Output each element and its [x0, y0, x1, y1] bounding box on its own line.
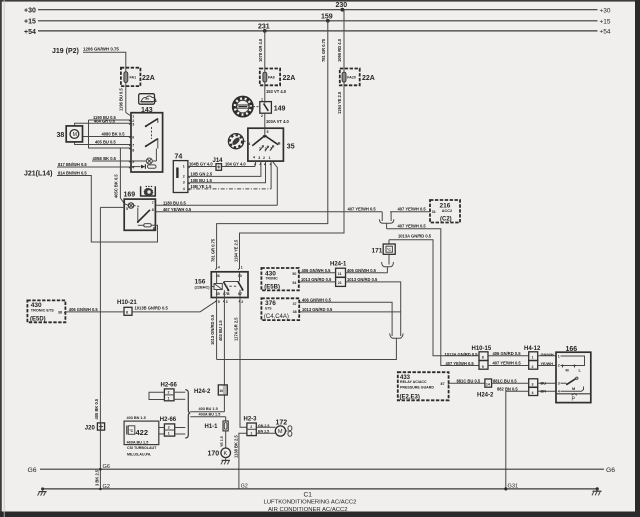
svg-text:1: 1	[250, 431, 252, 435]
svg-text:FA20: FA20	[347, 75, 356, 79]
svg-text:1: 1	[259, 146, 261, 150]
svg-text:406 GN/WH 0.5: 406 GN/WH 0.5	[347, 268, 377, 273]
svg-text:170: 170	[208, 450, 220, 457]
svg-text:422: 422	[136, 428, 149, 437]
svg-text:4: 4	[558, 390, 560, 394]
svg-text:231: 231	[258, 23, 270, 30]
svg-text:1090 RD 4.0: 1090 RD 4.0	[337, 38, 342, 62]
svg-text:406 GN/WH 0.5: 406 GN/WH 0.5	[69, 307, 99, 312]
svg-text:14: 14	[486, 382, 490, 386]
svg-text:407 YE/WH 0.5: 407 YE/WH 0.5	[398, 223, 427, 228]
svg-text:22A: 22A	[283, 75, 296, 82]
svg-text:2: 2	[183, 174, 185, 178]
svg-text:22A: 22A	[142, 75, 155, 82]
svg-text:+30: +30	[24, 8, 36, 15]
svg-text:882 BN 0.5: 882 BN 0.5	[497, 386, 518, 391]
svg-text:2: 2	[241, 300, 243, 304]
svg-text:2: 2	[261, 114, 263, 118]
svg-text:+15: +15	[24, 19, 36, 26]
svg-text:1013A GN/RD 0.5: 1013A GN/RD 0.5	[445, 352, 479, 357]
svg-text:5: 5	[126, 207, 128, 211]
svg-text:1: 1	[269, 156, 271, 160]
svg-text:TRONIC ETS: TRONIC ETS	[31, 309, 54, 313]
svg-text:1: 1	[168, 396, 170, 400]
svg-text:B: B	[278, 141, 281, 145]
svg-text:(E5B): (E5B)	[264, 284, 280, 290]
svg-text:4: 4	[248, 142, 250, 146]
svg-text:3 BK 2.5: 3 BK 2.5	[94, 469, 99, 486]
svg-text:2: 2	[250, 425, 252, 429]
svg-text:8: 8	[482, 356, 484, 360]
svg-text:YE/WH: YE/WH	[541, 362, 554, 366]
svg-text:35: 35	[287, 143, 295, 150]
svg-text:2: 2	[263, 156, 265, 160]
svg-text:°C: °C	[387, 248, 391, 252]
svg-text:460A BU 1.5: 460A BU 1.5	[127, 441, 149, 445]
svg-text:M: M	[566, 368, 569, 372]
svg-text:BN 2.5: BN 2.5	[258, 430, 269, 434]
svg-text:21: 21	[338, 281, 342, 285]
svg-text:54: 54	[292, 281, 296, 285]
svg-text:404 GR 0.5: 404 GR 0.5	[94, 119, 116, 124]
svg-text:FA1: FA1	[130, 76, 137, 80]
svg-text:H2-3: H2-3	[244, 416, 258, 422]
svg-text:405 BK 0.5: 405 BK 0.5	[94, 398, 99, 419]
svg-text:3: 3	[258, 156, 260, 160]
svg-text:PRESSURE GUARD: PRESSURE GUARD	[400, 386, 434, 390]
svg-text:3: 3	[226, 300, 228, 304]
svg-text:38: 38	[293, 310, 297, 314]
svg-text:10B BU 1.5: 10B BU 1.5	[191, 178, 213, 183]
svg-text:171: 171	[372, 248, 383, 255]
svg-text:1013B GN/RD 0.5: 1013B GN/RD 0.5	[135, 306, 169, 311]
svg-text:407 YE/WH 0.5: 407 YE/WH 0.5	[493, 361, 522, 366]
svg-text:149: 149	[274, 105, 286, 112]
svg-text:LUFTKONDITIONERING AC/ACC2: LUFTKONDITIONERING AC/ACC2	[264, 500, 357, 506]
svg-text:AIR CONDITIONER AC/ACC2: AIR CONDITIONER AC/ACC2	[268, 507, 348, 513]
svg-text:G2: G2	[103, 484, 110, 490]
svg-text:CSI TURBOLAUT: CSI TURBOLAUT	[127, 446, 157, 450]
svg-text:403 BN 1.5: 403 BN 1.5	[127, 416, 146, 420]
svg-text:BU: BU	[541, 382, 547, 386]
svg-text:1: 1	[558, 355, 560, 359]
svg-text:31: 31	[432, 210, 436, 214]
svg-text:3: 3	[532, 383, 534, 387]
svg-text:H10-15: H10-15	[472, 346, 492, 352]
svg-text:781 GR 0.75: 781 GR 0.75	[321, 38, 326, 62]
svg-text:159: 159	[321, 13, 333, 20]
svg-text:H2-66: H2-66	[161, 383, 178, 389]
svg-text:104B GY 4.0: 104B GY 4.0	[189, 162, 213, 167]
svg-text:37: 37	[293, 302, 297, 306]
svg-text:°C: °C	[129, 429, 133, 433]
svg-text:3: 3	[270, 146, 272, 150]
svg-text:(E2,E3): (E2,E3)	[400, 395, 420, 401]
svg-text:407 YE/WH 0.5: 407 YE/WH 0.5	[446, 361, 475, 366]
svg-text:406 GN/WH 0.5: 406 GN/WH 0.5	[302, 268, 332, 273]
svg-text:4: 4	[132, 165, 134, 169]
svg-text:406 GN/RD 0.5: 406 GN/RD 0.5	[493, 351, 522, 356]
svg-text:1: 1	[261, 98, 263, 102]
svg-text:1: 1	[532, 356, 534, 360]
svg-text:74: 74	[175, 154, 183, 161]
svg-text:8: 8	[152, 208, 154, 212]
svg-text:405 BU 0.5: 405 BU 0.5	[95, 140, 116, 145]
svg-text:403 BU 1.5: 403 BU 1.5	[218, 320, 223, 341]
svg-text:87: 87	[441, 382, 445, 386]
svg-text:230: 230	[336, 2, 348, 9]
svg-text:1196 BU 0.5: 1196 BU 0.5	[119, 88, 124, 111]
svg-text:1013A GN/RD 0.5: 1013A GN/RD 0.5	[398, 233, 432, 238]
svg-text:881C BU 0.5: 881C BU 0.5	[493, 378, 517, 383]
svg-text:1: 1	[183, 165, 185, 169]
svg-text:J19 (P2): J19 (P2)	[52, 48, 79, 55]
svg-text:50: 50	[292, 272, 296, 276]
svg-text:2: 2	[265, 147, 267, 151]
svg-text:+15: +15	[600, 19, 611, 26]
svg-text:M: M	[572, 387, 575, 391]
svg-text:117A GR 2.5: 117A GR 2.5	[234, 317, 239, 341]
svg-text:2: 2	[532, 365, 534, 369]
svg-text:G6: G6	[28, 467, 37, 474]
svg-text:H4-12: H4-12	[524, 346, 541, 352]
svg-text:8: 8	[132, 149, 134, 153]
svg-text:2: 2	[558, 364, 560, 368]
svg-text:RELAY AC/ACC: RELAY AC/ACC	[400, 380, 427, 384]
svg-text:H24-1: H24-1	[330, 261, 347, 267]
svg-text:1013 GN/RD 0.5: 1013 GN/RD 0.5	[347, 277, 378, 282]
svg-text:G31: G31	[508, 484, 519, 490]
svg-text:11: 11	[338, 272, 342, 276]
svg-text:(C4,C4A): (C4,C4A)	[264, 314, 289, 320]
svg-text:YE 1.5: YE 1.5	[220, 436, 224, 447]
svg-text:38: 38	[57, 132, 65, 139]
svg-text:10: 10	[219, 389, 223, 393]
svg-text:2: 2	[168, 426, 170, 430]
svg-text:1180 BU 0.5: 1180 BU 0.5	[163, 200, 186, 205]
svg-text:7: 7	[152, 201, 154, 205]
svg-text:1: 1	[241, 265, 243, 269]
svg-text:BN: BN	[541, 390, 547, 394]
svg-text:C1: C1	[304, 492, 313, 499]
svg-text:8: 8	[126, 311, 128, 315]
svg-text:J14: J14	[213, 158, 224, 164]
svg-text:4: 4	[532, 391, 534, 395]
svg-text:G6: G6	[606, 467, 615, 474]
svg-text:403A BU 1.5: 403A BU 1.5	[199, 413, 221, 417]
svg-text:1013 GN/RD 0.5: 1013 GN/RD 0.5	[302, 307, 333, 312]
svg-text:H24-2: H24-2	[194, 389, 211, 395]
svg-text:1078 GR 4.0: 1078 GR 4.0	[258, 38, 263, 62]
svg-text:G2: G2	[241, 483, 248, 489]
svg-text:2: 2	[168, 391, 170, 395]
svg-text:ETS: ETS	[265, 306, 271, 310]
svg-text:3: 3	[183, 181, 185, 185]
svg-text:1: 1	[132, 114, 134, 118]
svg-text:+54: +54	[24, 29, 36, 36]
svg-text:5: 5	[267, 130, 269, 134]
svg-text:10B GN 2.5: 10B GN 2.5	[191, 172, 213, 177]
svg-text:J21(L14): J21(L14)	[24, 170, 52, 177]
svg-text:M: M	[73, 132, 77, 138]
svg-text:+54: +54	[600, 29, 611, 36]
svg-text:1194 YE 2.5: 1194 YE 2.5	[234, 239, 239, 262]
svg-text:4: 4	[253, 156, 255, 160]
svg-text:+30: +30	[600, 7, 611, 14]
svg-text:H1-1: H1-1	[205, 424, 219, 430]
svg-text:1138 BK 2.5: 1138 BK 2.5	[234, 435, 239, 458]
svg-text:6: 6	[153, 226, 155, 230]
svg-text:GN/WH: GN/WH	[541, 353, 554, 357]
svg-text:M: M	[278, 429, 283, 435]
svg-text:H2-66: H2-66	[160, 417, 177, 423]
svg-text:9: 9	[482, 365, 484, 369]
svg-text:GN 2.5: GN 2.5	[258, 424, 269, 428]
svg-text:5: 5	[132, 160, 134, 164]
svg-text:407 YE/WH 0.5: 407 YE/WH 0.5	[398, 207, 427, 212]
svg-text:407 YE/WH 0.5: 407 YE/WH 0.5	[348, 207, 377, 212]
svg-text:P: P	[572, 396, 576, 402]
svg-text:TRONIC: TRONIC	[266, 277, 279, 281]
svg-text:FA8: FA8	[268, 75, 275, 79]
svg-text:814 BN/WH 0.5: 814 BN/WH 0.5	[58, 171, 87, 176]
svg-text:3: 3	[558, 382, 560, 386]
svg-text:4: 4	[218, 266, 220, 270]
svg-text:1013 GN/RD 0.5: 1013 GN/RD 0.5	[210, 314, 215, 345]
svg-text:(C2): (C2)	[440, 217, 452, 223]
svg-text:1013 GN/RD 0.5: 1013 GN/RD 0.5	[301, 277, 332, 282]
svg-text:166: 166	[566, 346, 578, 353]
svg-text:22A: 22A	[362, 75, 375, 82]
svg-text:156: 156	[195, 279, 206, 286]
svg-text:103A VT 4.0: 103A VT 4.0	[266, 119, 290, 124]
svg-text:ACC2: ACC2	[442, 209, 452, 213]
svg-text:K: K	[224, 451, 228, 457]
svg-text:881C BU 0.5: 881C BU 0.5	[457, 378, 481, 383]
svg-text:7: 7	[132, 143, 134, 147]
svg-text:4: 4	[183, 187, 185, 191]
svg-text:467 YE/WH 0.5: 467 YE/WH 0.5	[163, 207, 192, 212]
svg-text:405E BK 0.5: 405E BK 0.5	[93, 156, 117, 161]
svg-text:J20: J20	[85, 425, 96, 431]
svg-text:172: 172	[276, 419, 288, 426]
svg-text:1194 YE 2.5: 1194 YE 2.5	[337, 91, 342, 114]
svg-text:104 GY 4.0: 104 GY 4.0	[225, 162, 246, 167]
svg-text:4080 BK 0.5: 4080 BK 0.5	[102, 132, 126, 137]
svg-text:403 BU 1.5: 403 BU 1.5	[199, 407, 218, 411]
svg-text:6: 6	[132, 135, 134, 139]
svg-text:405C BK 0.5: 405C BK 0.5	[114, 174, 119, 198]
svg-text:H24-2: H24-2	[477, 392, 494, 398]
svg-text:10B YE 1.5: 10B YE 1.5	[191, 184, 213, 189]
svg-text:781 GR 0.75: 781 GR 0.75	[211, 238, 216, 262]
svg-text:(22BHC): (22BHC)	[195, 286, 211, 290]
svg-text:817 BN/WH 0.5: 817 BN/WH 0.5	[58, 162, 87, 167]
svg-text:(E5D): (E5D)	[30, 316, 46, 322]
svg-text:1206 GN/WH 0.75: 1206 GN/WH 0.75	[83, 47, 119, 52]
svg-text:G6: G6	[103, 464, 110, 470]
svg-text:38: 38	[58, 310, 62, 314]
svg-text:406 GN/WH 0.5: 406 GN/WH 0.5	[302, 298, 332, 303]
svg-text:1: 1	[168, 431, 170, 435]
svg-text:169: 169	[124, 191, 136, 198]
svg-text:5: 5	[218, 300, 220, 304]
svg-text:ME,US,AU,PA.: ME,US,AU,PA.	[127, 452, 151, 456]
svg-text:3: 3	[132, 123, 134, 127]
svg-text:153 VT 4.0: 153 VT 4.0	[266, 89, 287, 94]
